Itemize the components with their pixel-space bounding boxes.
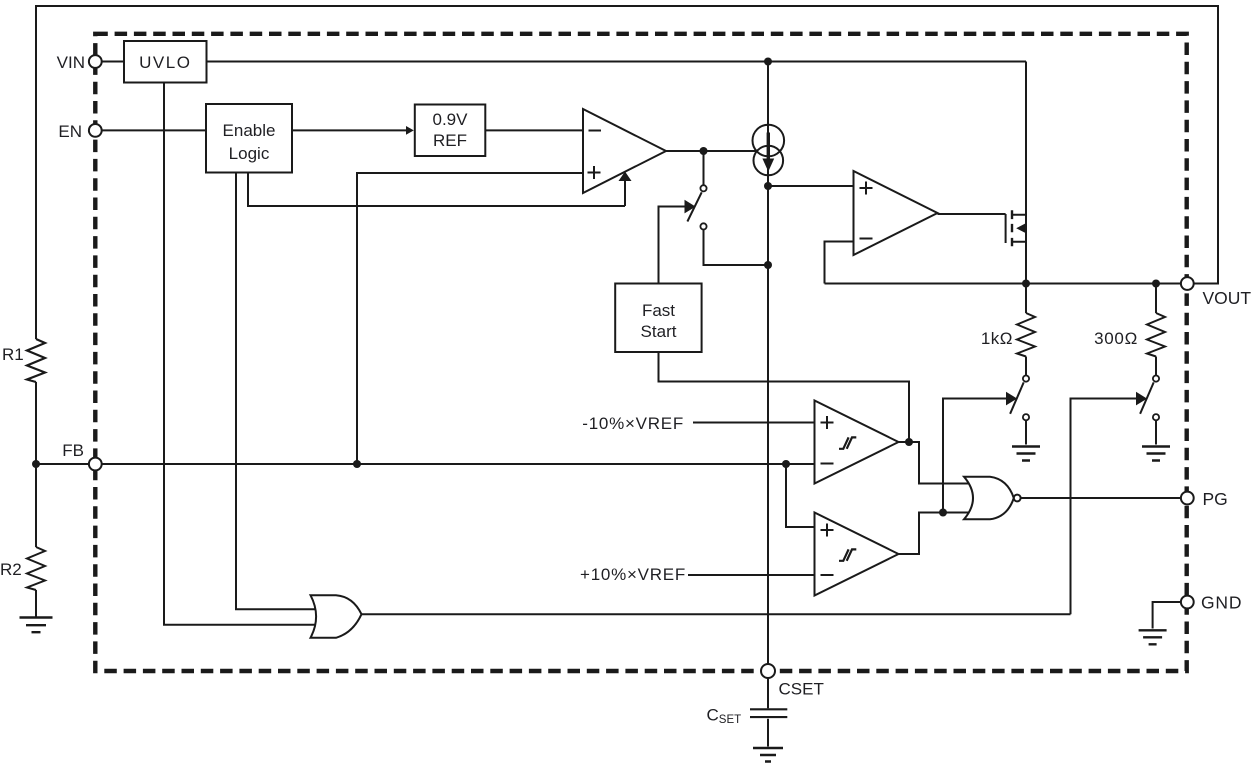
wire current source branch / CSET net vertical xyxy=(767,62,769,665)
svg-text:+10%×VREF: +10%×VREF xyxy=(580,565,686,584)
wire NOR output to PG pin xyxy=(1021,497,1181,499)
gate U6 OR (discharge control) xyxy=(311,595,362,638)
pin GND xyxy=(1181,596,1194,609)
wire FB node to FB pin and FB net into IC xyxy=(36,463,818,465)
wire Enable Logic down/right to error amp enable arrow xyxy=(248,173,625,207)
svg-text:Enable: Enable xyxy=(223,121,276,140)
pin EN xyxy=(89,124,102,137)
wire pass FET source/drain vertical xyxy=(1025,62,1027,284)
node NOR input / S2 control xyxy=(939,509,947,517)
wire external VOUT-to-R1 loop (top/left/right outer lines) xyxy=(36,6,1218,339)
node error amp output xyxy=(700,147,708,155)
switch S3 (output discharge) xyxy=(1153,376,1159,382)
wire Enable Logic down to OR gate input xyxy=(236,173,326,610)
wire FB branch down to comparator2 + input xyxy=(786,464,818,527)
current source I1 xyxy=(753,125,785,157)
ground at GND pin xyxy=(1139,630,1167,644)
wire +10% VREF to comparator2 - input xyxy=(688,574,818,576)
block 0.9V REF xyxy=(415,105,486,157)
wire fast start control to switch S1 (with arrowhead) xyxy=(659,207,687,284)
wire 1k resistor to switch S2 xyxy=(1025,357,1027,376)
pin CSET xyxy=(761,664,775,678)
node fast start / CSET xyxy=(764,261,772,269)
resistor 1k ohm xyxy=(1017,313,1035,357)
resistor 1k pullup chain: wire VOUT to resistor xyxy=(1025,284,1027,314)
node comparator1 output xyxy=(905,438,913,446)
node FB to comparators xyxy=(782,460,790,468)
svg-text:UVLO: UVLO xyxy=(139,53,191,72)
wire -10% VREF to comparator1 + input xyxy=(693,422,818,424)
svg-text:CSET: CSET xyxy=(707,706,742,727)
svg-text:R2: R2 xyxy=(0,560,22,579)
ground below CSET capacitor xyxy=(753,748,783,762)
svg-text:-10%×VREF: -10%×VREF xyxy=(582,414,684,433)
comparator U4 (overvoltage, with hysteresis) xyxy=(815,513,899,596)
node FB divider tap xyxy=(32,460,40,468)
svg-text:FB: FB xyxy=(62,441,84,460)
wire FB branch up to error amp + input xyxy=(357,173,586,464)
wire Enable Logic to 0.9V REF (with arrowhead) xyxy=(292,129,406,131)
gate U5 NOR (power good) xyxy=(964,477,1014,520)
ground below R2 xyxy=(20,618,53,633)
IC boundary dashed border xyxy=(95,34,1186,671)
block Enable Logic xyxy=(206,104,292,173)
wire OR gate output to switch S3 control (with arrowhead) xyxy=(1071,399,1138,615)
transistor Q1 PMOS pass element xyxy=(1005,214,1007,243)
svg-text:R1: R1 xyxy=(2,345,24,364)
block Fast Start xyxy=(615,284,701,353)
svg-text:VIN: VIN xyxy=(57,53,85,72)
comparator U3 (undervoltage, with hysteresis) xyxy=(815,401,899,484)
wire switch S2 to ground xyxy=(1025,420,1027,444)
pin VOUT xyxy=(1181,277,1194,290)
svg-text:VOUT: VOUT xyxy=(1203,288,1252,308)
wire UVLO output down to OR gate input xyxy=(164,83,326,625)
svg-text:300Ω: 300Ω xyxy=(1094,329,1138,348)
wire error amp output to current source xyxy=(666,150,757,152)
switch S1 (fast start bypass) xyxy=(700,185,706,191)
wire comparator2 output to NOR gate xyxy=(899,513,976,555)
pin VIN xyxy=(89,55,102,68)
svg-text:1kΩ: 1kΩ xyxy=(981,329,1013,348)
svg-text:PG: PG xyxy=(1203,489,1228,509)
wire capacitor to ground xyxy=(767,719,769,747)
wire buffer - input feedback from VOUT xyxy=(825,242,859,284)
ground below switch S2 xyxy=(1012,447,1040,461)
wire switch S1 to CSET net xyxy=(704,230,769,265)
arrow into error amp xyxy=(624,180,626,206)
svg-text:Logic: Logic xyxy=(229,144,270,163)
wire fast start output down to comparator1 output node xyxy=(659,352,910,442)
pin PG xyxy=(1181,492,1194,505)
switch S2 (PG pulldown) xyxy=(1023,376,1029,382)
wire VOUT net xyxy=(825,283,1182,285)
svg-text:REF: REF xyxy=(433,131,467,150)
svg-text:Fast: Fast xyxy=(642,301,675,320)
wire OR gate output xyxy=(361,613,1071,615)
wire VIN pin to UVLO xyxy=(102,61,124,63)
svg-text:CSET: CSET xyxy=(779,680,824,699)
resistor 300 ohm chain: wire VOUT to resistor xyxy=(1155,284,1157,314)
wire R2 to ground xyxy=(35,590,37,617)
wire switch S3 to ground xyxy=(1155,420,1157,444)
svg-text:Start: Start xyxy=(641,322,677,341)
block UVLO xyxy=(124,41,207,83)
svg-text:0.9V: 0.9V xyxy=(433,110,469,129)
node FB to error amp xyxy=(353,460,361,468)
svg-text:EN: EN xyxy=(58,122,82,141)
wire R1 to FB node xyxy=(35,382,37,464)
wire FB node to R2 xyxy=(35,464,37,547)
wire EN pin to Enable Logic xyxy=(102,129,206,131)
node VIN rail / current source tap xyxy=(764,58,772,66)
wire GND pin to ground xyxy=(1153,602,1181,629)
node current source output xyxy=(764,182,772,190)
pin FB xyxy=(89,458,102,471)
wire 300 ohm resistor to switch S3 xyxy=(1155,357,1157,376)
svg-text:GND: GND xyxy=(1201,593,1242,613)
op-amp U2 gate driver buffer xyxy=(854,171,938,255)
ground below switch S3 xyxy=(1142,447,1170,461)
node VOUT / 300 ohm xyxy=(1152,280,1160,288)
wire comparator1 output to NOR gate xyxy=(899,442,976,484)
capacitor CSET xyxy=(750,709,787,717)
wire VIN rail from UVLO to pass FET source xyxy=(207,61,1027,63)
node VOUT / pass FET drain xyxy=(1022,280,1030,288)
wire error amp output to fast-start switch xyxy=(703,151,705,185)
wire 0.9V REF to error amp - input xyxy=(486,129,587,131)
wire current source to buffer + input xyxy=(768,185,858,187)
resistor R2 xyxy=(27,547,45,590)
op-amp U1 error amplifier xyxy=(583,109,666,193)
wire CSET pin to capacitor xyxy=(767,678,769,709)
resistor 300 ohm xyxy=(1147,313,1165,357)
wire buffer output to FET gate xyxy=(938,213,1006,215)
wire PG comparator node to switch S2 control (with arrowhead) xyxy=(943,399,1008,513)
resistor R1 xyxy=(27,339,45,382)
